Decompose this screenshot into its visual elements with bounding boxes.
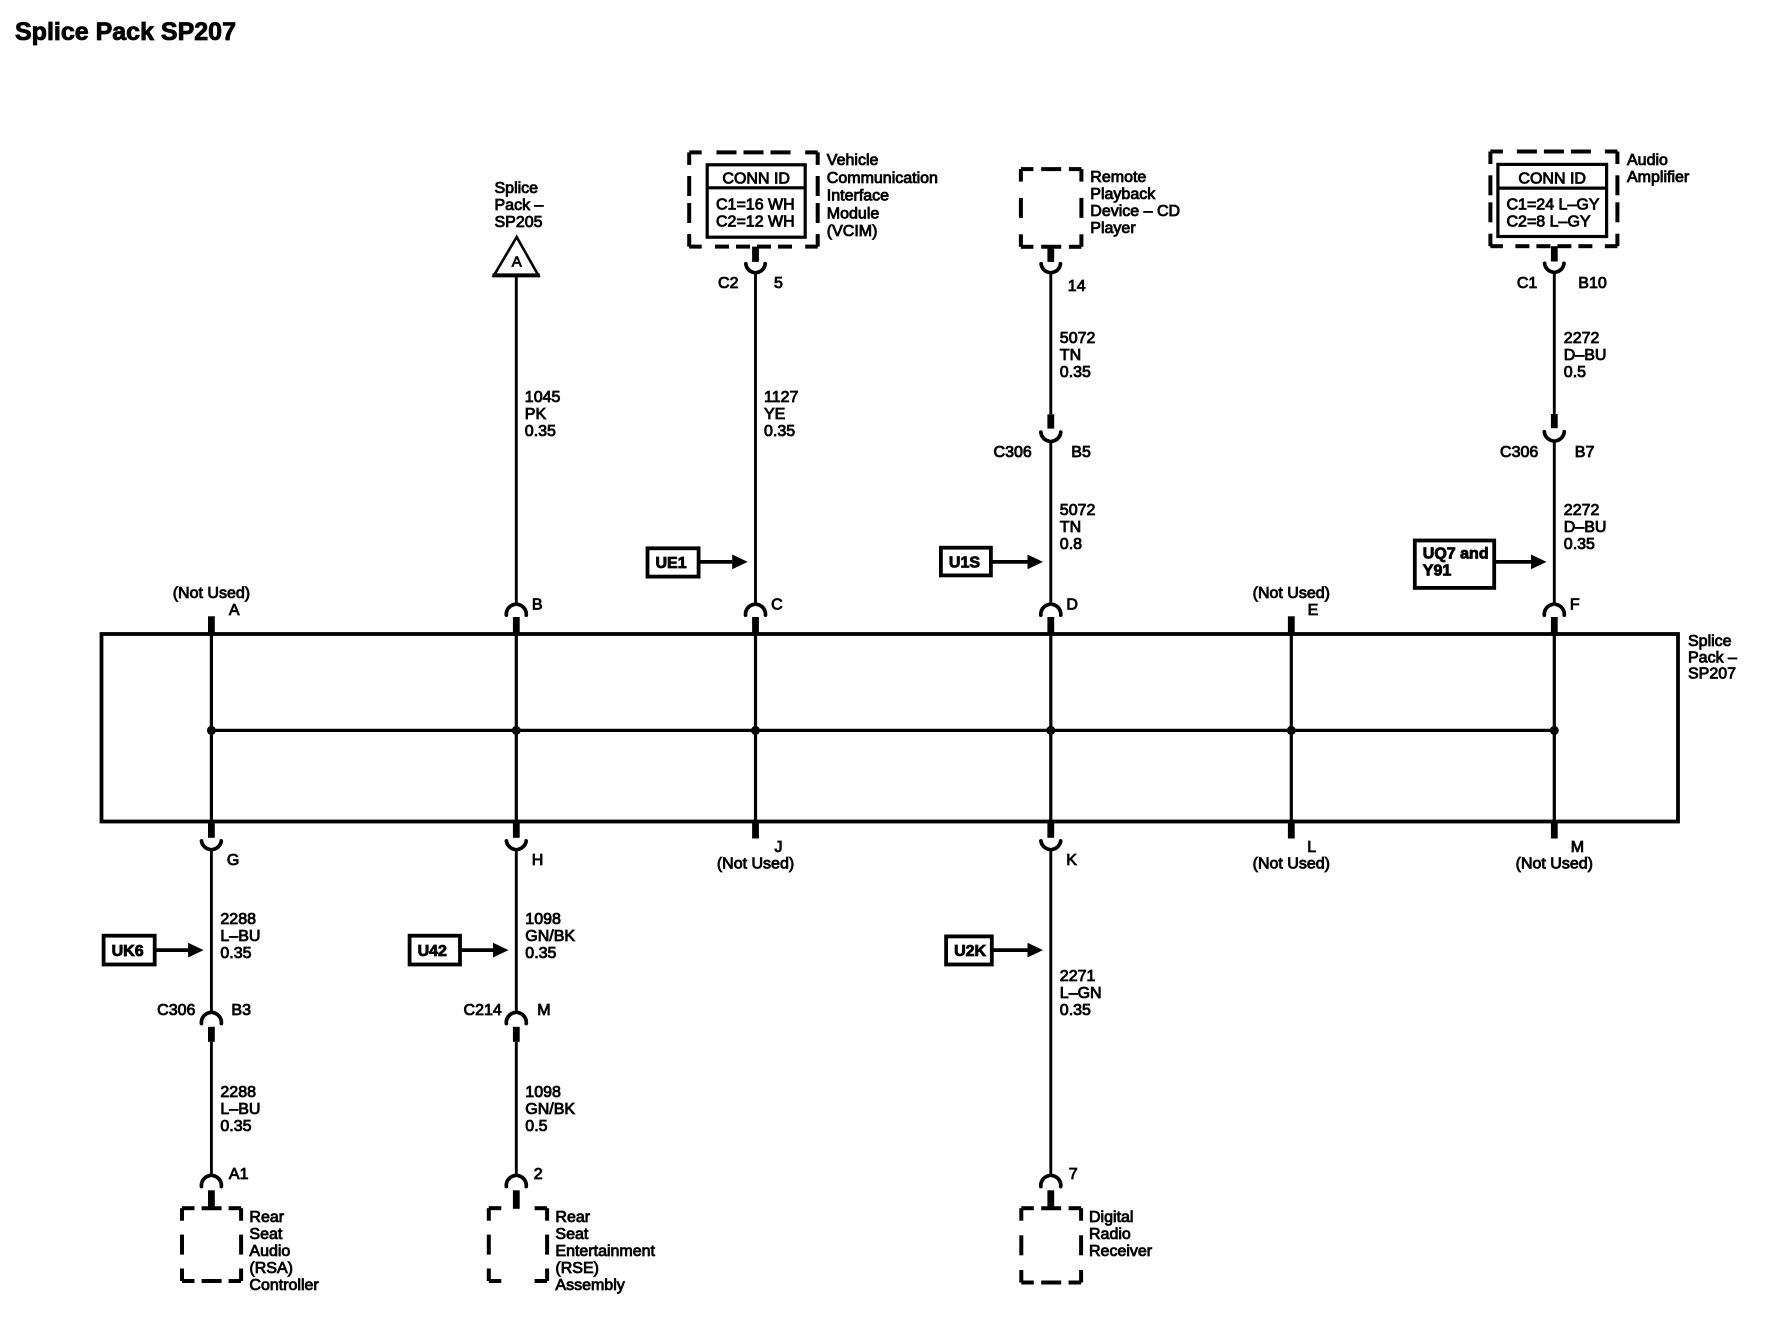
svg-text:(Not Used): (Not Used) [1253, 856, 1330, 873]
junction dot C [751, 726, 760, 735]
RSE pin stub [513, 1190, 520, 1209]
svg-text:1098: 1098 [525, 1084, 561, 1101]
svg-text:C: C [771, 597, 783, 614]
wire C from VCIM [754, 274, 757, 605]
VCIM pin arc [746, 264, 754, 273]
svg-text:Module: Module [827, 205, 880, 222]
svg-text:0.5: 0.5 [525, 1118, 547, 1135]
splice pack SP205 triangle A [494, 237, 539, 275]
svg-text:0.8: 0.8 [1060, 536, 1082, 553]
junction dot B [512, 726, 521, 735]
junction dot A [207, 726, 216, 735]
svg-text:UE1: UE1 [656, 555, 687, 572]
wire G upper [210, 848, 213, 1013]
svg-text:Seat: Seat [249, 1226, 282, 1243]
svg-text:C214: C214 [464, 1002, 502, 1019]
code box UE1 with arrow [648, 548, 699, 576]
svg-text:L–GN: L–GN [1060, 985, 1102, 1002]
svg-text:Vehicle: Vehicle [827, 152, 879, 169]
svg-text:PK: PK [525, 406, 547, 423]
inline connector C214 M arc [506, 1013, 514, 1024]
code box U2K with arrow [946, 936, 992, 964]
svg-text:C1=16 WH: C1=16 WH [716, 196, 795, 213]
svg-text:YE: YE [764, 406, 785, 423]
wire F lower to splice pack [1553, 442, 1556, 604]
terminal G [208, 821, 215, 838]
svg-text:L–BU: L–BU [220, 1101, 260, 1118]
RSA pin stub [208, 1190, 215, 1209]
svg-text:5: 5 [774, 275, 783, 292]
terminal K [1047, 821, 1054, 838]
RSA controller dashed box [182, 1206, 195, 1210]
code box UK6 with arrow [104, 936, 155, 965]
terminal L (not used) stub [1288, 821, 1295, 839]
DRR pin arc [1041, 1176, 1049, 1187]
svg-text:0.5: 0.5 [1564, 364, 1586, 381]
Amplifier CONN ID box [1498, 164, 1607, 236]
terminal B [506, 604, 514, 615]
RSA pin arc [201, 1176, 209, 1187]
terminal M (not used) stub [1551, 821, 1558, 839]
inline connector C306 B7 stub [1551, 414, 1558, 428]
junction dot E [1287, 726, 1296, 735]
svg-text:(RSE): (RSE) [555, 1260, 599, 1277]
svg-text:Audio: Audio [1627, 152, 1668, 169]
svg-text:U1S: U1S [949, 554, 980, 571]
svg-text:B3: B3 [231, 1002, 251, 1019]
svg-text:Playback: Playback [1090, 186, 1156, 203]
svg-text:C306: C306 [1500, 444, 1538, 461]
svg-text:14: 14 [1068, 278, 1086, 295]
svg-text:B10: B10 [1578, 275, 1607, 292]
svg-text:GN/BK: GN/BK [525, 928, 575, 945]
inline connector C306 B5 arc [1041, 432, 1049, 441]
svg-text:C1: C1 [1517, 275, 1538, 292]
code box U42 with arrow [410, 936, 460, 965]
svg-text:5072: 5072 [1060, 330, 1096, 347]
svg-text:A: A [512, 254, 522, 271]
svg-text:Entertainment: Entertainment [555, 1243, 655, 1260]
terminal A (not used) stub [208, 616, 215, 635]
svg-text:G: G [227, 852, 239, 869]
svg-text:CONN ID: CONN ID [722, 171, 790, 188]
wire A1 lower [210, 1042, 213, 1175]
svg-text:B: B [532, 597, 543, 614]
svg-text:7: 7 [1069, 1166, 1078, 1183]
wire B from SP205 triangle [515, 276, 518, 604]
terminal H [513, 821, 520, 838]
RSE dashed box [489, 1206, 502, 1210]
terminal D [1041, 604, 1049, 615]
wire pin2 lower [515, 1042, 518, 1175]
svg-text:Controller: Controller [249, 1277, 319, 1294]
svg-text:Assembly: Assembly [555, 1277, 624, 1294]
RSE pin arc [506, 1176, 514, 1187]
VCIM pin stub [752, 247, 759, 262]
svg-text:Rear: Rear [555, 1209, 590, 1226]
svg-text:TN: TN [1060, 347, 1081, 364]
inline connector C306 B5 stub [1047, 414, 1054, 428]
svg-text:Seat: Seat [555, 1226, 588, 1243]
svg-text:Receiver: Receiver [1089, 1243, 1153, 1260]
svg-text:Player: Player [1090, 220, 1136, 237]
svg-text:TN: TN [1060, 519, 1081, 536]
svg-text:Splice Pack SP207: Splice Pack SP207 [15, 18, 236, 46]
svg-text:0.35: 0.35 [1564, 536, 1595, 553]
wire inside box col E [1290, 634, 1293, 822]
CD player pin arc [1041, 264, 1049, 273]
svg-text:L–BU: L–BU [220, 928, 260, 945]
wire D lower to splice pack [1049, 442, 1052, 604]
inline connector C306 B3 stub [208, 1027, 215, 1042]
VCIM dashed box [689, 150, 702, 154]
svg-text:B7: B7 [1575, 444, 1595, 461]
svg-text:UQ7 and: UQ7 and [1423, 546, 1489, 563]
wire inside box col A [210, 634, 213, 822]
svg-text:U2K: U2K [954, 943, 986, 960]
svg-text:H: H [532, 852, 544, 869]
svg-text:1098: 1098 [525, 911, 561, 928]
terminal C [746, 604, 754, 615]
terminal F [1544, 604, 1552, 615]
svg-text:Device – CD: Device – CD [1090, 203, 1180, 220]
svg-text:0.35: 0.35 [1060, 364, 1091, 381]
wire K [1049, 848, 1052, 1174]
svg-text:J: J [775, 839, 783, 856]
svg-text:0.35: 0.35 [220, 945, 251, 962]
code box U1S with arrow [941, 548, 991, 576]
wire inside box col F [1553, 634, 1556, 822]
Audio Amplifier dashed box [1490, 150, 1503, 154]
svg-text:(Not Used): (Not Used) [717, 856, 794, 873]
svg-text:Pack –: Pack – [495, 197, 544, 214]
svg-text:Digital: Digital [1089, 1209, 1133, 1226]
svg-text:D: D [1066, 597, 1078, 614]
svg-text:D–BU: D–BU [1564, 347, 1607, 364]
DRR pin stub [1047, 1190, 1054, 1209]
junction dot F [1550, 726, 1559, 735]
svg-text:D–BU: D–BU [1564, 519, 1607, 536]
svg-text:0.35: 0.35 [764, 423, 795, 440]
svg-text:0.35: 0.35 [1060, 1002, 1091, 1019]
svg-text:Splice: Splice [495, 180, 539, 197]
bus bar [211, 729, 1554, 732]
Digital Radio Receiver dashed box [1021, 1206, 1034, 1210]
svg-text:2272: 2272 [1564, 502, 1600, 519]
Remote Playback dashed box [1021, 167, 1034, 171]
terminal E (not used) stub [1288, 616, 1295, 635]
svg-text:Audio: Audio [249, 1243, 290, 1260]
svg-text:UK6: UK6 [112, 943, 144, 960]
svg-text:GN/BK: GN/BK [525, 1101, 575, 1118]
inline connector C306 B7 arc [1544, 432, 1552, 441]
junction dot D [1046, 726, 1055, 735]
svg-text:(Not Used): (Not Used) [1253, 585, 1330, 602]
svg-text:F: F [1570, 597, 1580, 614]
svg-text:M: M [537, 1002, 550, 1019]
svg-text:2271: 2271 [1060, 968, 1096, 985]
svg-text:2: 2 [534, 1166, 543, 1183]
svg-text:U42: U42 [418, 943, 447, 960]
svg-text:C306: C306 [157, 1002, 195, 1019]
svg-text:Interface: Interface [827, 188, 889, 205]
terminal J (not used) stub [752, 821, 759, 839]
svg-text:(Not Used): (Not Used) [173, 585, 250, 602]
svg-text:(RSA): (RSA) [249, 1260, 293, 1277]
svg-text:2288: 2288 [220, 911, 256, 928]
svg-text:C2=12 WH: C2=12 WH [716, 213, 795, 230]
svg-text:2272: 2272 [1564, 330, 1600, 347]
svg-text:Remote: Remote [1090, 169, 1146, 186]
svg-text:SP205: SP205 [495, 214, 543, 231]
svg-text:M: M [1571, 839, 1584, 856]
svg-text:(Not Used): (Not Used) [1516, 856, 1593, 873]
svg-text:SP207: SP207 [1688, 666, 1736, 683]
wire inside box col D [1049, 634, 1052, 822]
svg-text:A: A [229, 602, 240, 619]
svg-text:Radio: Radio [1089, 1226, 1131, 1243]
VCIM CONN ID box [707, 165, 805, 237]
svg-text:Splice: Splice [1688, 633, 1732, 650]
svg-text:Rear: Rear [249, 1209, 284, 1226]
wire H upper [515, 848, 518, 1013]
code box UQ7 and Y91 with arrow [1415, 541, 1494, 588]
svg-text:C2: C2 [718, 275, 739, 292]
svg-text:Y91: Y91 [1423, 563, 1452, 580]
svg-text:Amplifier: Amplifier [1627, 169, 1690, 186]
svg-text:1045: 1045 [525, 389, 561, 406]
wire D upper from CD player [1049, 274, 1052, 415]
svg-text:1127: 1127 [764, 389, 799, 406]
svg-text:2288: 2288 [220, 1084, 256, 1101]
svg-text:K: K [1066, 852, 1077, 869]
svg-text:B5: B5 [1071, 444, 1091, 461]
svg-text:A1: A1 [229, 1166, 249, 1183]
svg-text:0.35: 0.35 [525, 423, 556, 440]
svg-text:0.35: 0.35 [220, 1118, 251, 1135]
splice pack SP207 box [102, 634, 1679, 822]
Amplifier pin arc [1545, 263, 1553, 272]
Amplifier pin stub [1551, 246, 1558, 261]
inline connector C214 M stub [513, 1027, 520, 1042]
svg-text:C1=24 L–GY: C1=24 L–GY [1507, 197, 1600, 214]
svg-text:C2=8 L–GY: C2=8 L–GY [1507, 214, 1591, 231]
wire F upper from amplifier [1553, 273, 1556, 414]
svg-text:Pack –: Pack – [1688, 649, 1737, 666]
CD player pin stub [1047, 247, 1054, 262]
svg-text:C306: C306 [994, 444, 1032, 461]
svg-text:0.35: 0.35 [525, 945, 556, 962]
wire inside box col B [515, 634, 518, 822]
wire inside box col C [754, 634, 757, 822]
inline connector C306 B3 arc [201, 1013, 209, 1024]
svg-text:5072: 5072 [1060, 502, 1096, 519]
svg-text:(VCIM): (VCIM) [827, 223, 878, 240]
svg-text:Communication: Communication [827, 170, 938, 187]
svg-text:CONN ID: CONN ID [1518, 171, 1586, 188]
svg-text:E: E [1308, 602, 1319, 619]
svg-text:L: L [1307, 839, 1316, 856]
